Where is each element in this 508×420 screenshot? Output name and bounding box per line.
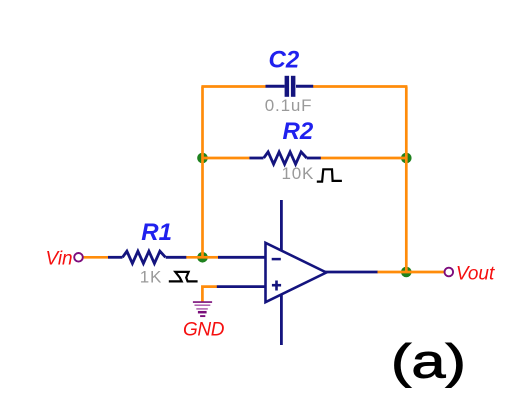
svg-text:Vin: Vin — [46, 249, 73, 270]
resistor R2 — [249, 152, 320, 164]
wire plus input branch to ground — [202, 287, 217, 302]
svg-text:C2: C2 — [269, 47, 300, 74]
svg-text:(a): (a) — [391, 336, 466, 389]
wire top-left horizontal to C2 — [201, 85, 265, 88]
op-amp U1 triangle — [266, 243, 327, 302]
wire Vin terminal stub — [84, 256, 109, 259]
wire left vertical feedback bus — [201, 87, 204, 258]
capacitor C2 — [266, 76, 314, 97]
ground — [193, 302, 212, 316]
pulse marker — [317, 169, 342, 181]
wire non-inverting input navy — [217, 285, 266, 288]
wire inverting input navy — [218, 256, 266, 259]
wire output navy — [324, 271, 378, 274]
node junction right R2 row — [401, 153, 412, 164]
svg-text:GND: GND — [183, 320, 225, 341]
svg-text:Vout: Vout — [456, 264, 495, 285]
terminal Vin — [74, 253, 83, 262]
wire right vertical feedback bus — [405, 87, 408, 273]
resistor R1 — [108, 251, 186, 263]
terminal Vout — [445, 268, 454, 277]
wire R1 right to junction — [186, 256, 203, 259]
svg-text:R2: R2 — [283, 118, 314, 145]
node junction output — [401, 267, 412, 278]
wire C2 right to right bus — [313, 85, 407, 88]
node junction inverting input — [197, 252, 208, 263]
svg-text:1K: 1K — [140, 267, 162, 286]
op-amp minus sign — [272, 258, 281, 261]
op-amp U1 power rail — [280, 200, 283, 345]
ohm marker — [169, 272, 198, 282]
node junction left R2 row — [197, 153, 208, 164]
op-amp plus sign — [272, 281, 281, 291]
wire R2 row left — [203, 157, 250, 160]
wire junction to inverting input — [203, 256, 219, 259]
wire R2 row right — [321, 157, 407, 160]
svg-text:10K: 10K — [282, 164, 315, 183]
wire output to Vout terminal — [377, 271, 445, 274]
svg-text:0.1uF: 0.1uF — [265, 96, 312, 115]
svg-text:R1: R1 — [141, 219, 172, 246]
